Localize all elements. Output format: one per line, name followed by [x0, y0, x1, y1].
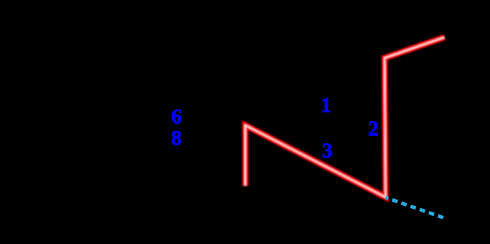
svg-text:8: 8	[171, 126, 182, 150]
svg-text:2: 2	[368, 116, 379, 140]
svg-text:1: 1	[321, 93, 332, 117]
svg-text:3: 3	[322, 139, 333, 163]
